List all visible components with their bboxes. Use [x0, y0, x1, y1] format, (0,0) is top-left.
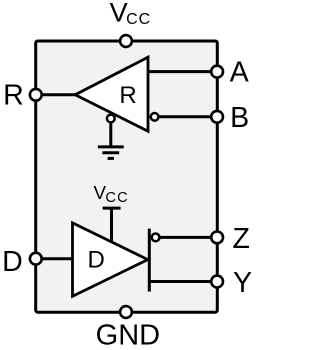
wire A input: [148, 70, 217, 73]
svg-text:Z: Z: [232, 223, 249, 255]
wire D input: [36, 257, 73, 260]
svg-text:R: R: [119, 82, 136, 109]
driver U2: [73, 223, 148, 296]
bubble Z inversion: [152, 234, 160, 242]
wire driver output bar: [148, 229, 151, 292]
wire Y output: [149, 280, 217, 283]
IC body: [36, 41, 218, 312]
pin D: [30, 253, 42, 265]
svg-text:Y: Y: [233, 267, 252, 299]
ground symbol: [98, 147, 124, 159]
svg-text:VCC: VCC: [110, 0, 152, 28]
Vcc T-bar: [103, 207, 121, 210]
pin Vcc: [120, 35, 132, 47]
svg-text:D: D: [88, 246, 105, 273]
wire ground stem: [109, 119, 112, 147]
pin GND: [120, 306, 132, 318]
wire Vcc stub to driver: [110, 208, 113, 242]
pin B: [211, 111, 223, 123]
svg-text:R: R: [3, 80, 24, 112]
wire R output: [36, 93, 76, 96]
wire Z output: [156, 236, 218, 239]
bubble B input inversion: [151, 113, 159, 121]
pin A: [211, 66, 223, 78]
svg-text:D: D: [2, 246, 23, 278]
pin R: [30, 89, 42, 101]
svg-text:A: A: [230, 56, 250, 88]
svg-text:B: B: [230, 102, 249, 134]
receiver U1: [75, 57, 148, 131]
svg-text:GND: GND: [96, 320, 160, 350]
pin Z: [211, 232, 223, 244]
bubble receiver ground: [107, 115, 115, 123]
wire B input: [155, 115, 218, 118]
pin Y: [211, 276, 223, 288]
